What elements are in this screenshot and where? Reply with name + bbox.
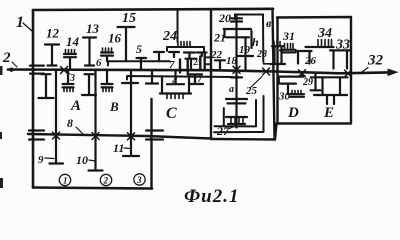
svg-text:Фи2.1: Фи2.1 (184, 186, 239, 206)
lower shaft 8 (28, 134, 211, 139)
gear T130 and shaft 11 (122, 70, 139, 156)
bearing cross right box wall (345, 70, 352, 77)
svg-text:4: 4 (171, 75, 178, 87)
svg-text:3: 3 (136, 175, 142, 185)
leader label 11 (124, 147, 131, 150)
leader label 8 (76, 127, 83, 134)
leader label 3 (65, 71, 71, 74)
svg-text:C: C (166, 105, 177, 122)
svg-text:в: в (266, 16, 272, 30)
gear 31 (285, 44, 294, 50)
svg-text:12: 12 (46, 26, 60, 41)
gear 28 cluster (274, 42, 280, 46)
svg-text:29: 29 (302, 77, 313, 88)
clutch 23 bars (180, 55, 205, 73)
housing box left outline (33, 9, 273, 10)
band (в) bracket inside middle box (235, 15, 263, 62)
svg-text:7: 7 (169, 59, 175, 71)
leader line label 1 (23, 23, 32, 31)
scan artifact left edge marks (0, 66, 3, 188)
svg-text:5: 5 (136, 42, 142, 56)
svg-text:13: 13 (86, 21, 100, 36)
svg-text:33: 33 (335, 38, 350, 53)
countershaft line 6 (107, 61, 170, 65)
ring gear bars 21 (224, 29, 251, 37)
svg-text:21: 21 (213, 31, 226, 45)
gear C teeth (167, 95, 183, 99)
gear 22 (215, 60, 225, 69)
leader label 20 (230, 18, 234, 20)
gear 20 (231, 18, 242, 21)
svg-text:18: 18 (226, 55, 238, 67)
gear 33 drum (330, 50, 351, 68)
circled shaft 1 (59, 174, 145, 186)
svg-text:1: 1 (16, 14, 24, 31)
right gearbox housing (277, 17, 352, 124)
gear 12 (45, 45, 59, 66)
housing partition x178 (177, 10, 179, 43)
bearing cross shaft10 (92, 133, 99, 140)
svg-text:24: 24 (162, 29, 177, 44)
gear mesh of 14 (67, 70, 69, 84)
svg-text:E: E (323, 105, 334, 121)
svg-text:h: h (252, 35, 259, 49)
svg-text:8: 8 (67, 116, 73, 130)
gear a cap (231, 76, 242, 78)
planet gears 27 lower (226, 117, 247, 124)
svg-text:32: 32 (367, 53, 384, 69)
bearing cross 25 (263, 68, 270, 75)
svg-text:3: 3 (69, 73, 75, 84)
carrier outer wall (214, 96, 264, 132)
gear 26 drum (296, 51, 312, 64)
carrier walls 27 box (215, 100, 257, 126)
shaft of gear 9 (long stem A) (50, 70, 64, 163)
gear 5 (137, 58, 147, 70)
band h drum (250, 31, 252, 48)
svg-text:30: 30 (278, 91, 291, 103)
svg-text:31: 31 (282, 29, 295, 43)
clutch shelf lines (205, 57, 211, 64)
gear 17 lower (188, 74, 204, 84)
gear 19 (238, 37, 253, 70)
shaft input dot (9, 68, 13, 72)
gear 30 drum (278, 73, 303, 94)
countershaft line 4 (127, 76, 233, 80)
gear mesh of 16 (106, 70, 108, 84)
gear 29 (311, 74, 321, 91)
svg-text:16: 16 (108, 31, 122, 46)
svg-text:11: 11 (113, 141, 124, 155)
svg-text:20: 20 (218, 11, 231, 25)
svg-text:a: a (229, 84, 234, 95)
svg-text:В: В (109, 99, 119, 114)
bearing cross right box mid (299, 70, 306, 77)
bearing cross shaft11 (128, 133, 135, 140)
sun shaft 18 (235, 15, 237, 128)
svg-text:34: 34 (317, 26, 332, 41)
svg-text:9: 9 (38, 154, 44, 166)
leader label 32 (363, 68, 369, 72)
gear 15 (118, 27, 135, 61)
gear 34 teeth (318, 40, 332, 47)
svg-text:19: 19 (239, 44, 251, 56)
gear 24 teeth (178, 42, 190, 48)
shaft of gear 10 (long stem B) (89, 70, 103, 170)
svg-text:25: 25 (245, 85, 258, 97)
gear A pair (39, 74, 54, 98)
middle gearbox housing (210, 9, 212, 139)
svg-text:17: 17 (193, 74, 203, 84)
svg-text:6: 6 (96, 57, 102, 69)
bearing cross node 3 (61, 67, 68, 74)
gear 14 (66, 50, 75, 54)
part number labels (2, 11, 384, 167)
bearing on shaft8 right wall (146, 131, 163, 140)
leader label 25 (250, 77, 262, 89)
shelf between boxes (264, 61, 272, 64)
gear drum C (160, 70, 191, 93)
svg-text:14: 14 (66, 34, 80, 49)
gear 16 (103, 48, 112, 52)
svg-text:26: 26 (304, 55, 317, 67)
leader label 9 (45, 157, 54, 160)
carrier bar 34 (306, 46, 334, 48)
leader label 27 (230, 126, 237, 129)
main input shaft 2 (8, 70, 389, 74)
svg-text:2: 2 (2, 50, 11, 66)
gear D teeth (292, 91, 301, 94)
bearing cross 18 (233, 66, 240, 73)
svg-text:27: 27 (216, 124, 230, 138)
gear E drum (311, 77, 348, 104)
svg-text:15: 15 (122, 11, 136, 26)
svg-text:A: A (70, 98, 81, 114)
leader label 10 (89, 160, 95, 161)
gear T152 (146, 70, 158, 83)
svg-text:2: 2 (103, 176, 109, 186)
planet gears 27 upper (226, 99, 247, 103)
gear 17 upper (186, 59, 197, 70)
svg-text:D: D (287, 105, 299, 121)
gear caps row y52 (154, 52, 164, 61)
carrier line 24 (167, 47, 204, 51)
bearing on shaft8 left (29, 131, 44, 140)
bearing cross shaft9 (53, 132, 60, 139)
svg-text:10: 10 (76, 153, 88, 167)
svg-text:22: 22 (210, 49, 223, 61)
output arrowhead 32 (388, 69, 397, 75)
gear B pair (82, 74, 96, 95)
svg-text:1: 1 (63, 176, 68, 186)
svg-text:23: 23 (193, 58, 202, 67)
gear 13 (83, 38, 96, 66)
bearing at left wall on main shaft (30, 66, 44, 74)
leader label 2 (12, 62, 17, 67)
svg-text:28: 28 (256, 49, 267, 60)
